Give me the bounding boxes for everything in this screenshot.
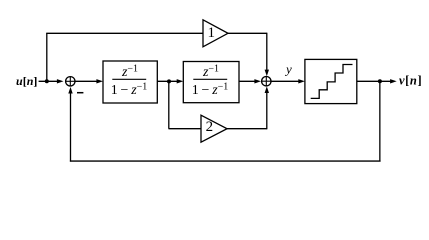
- node B (between integrators): [167, 79, 171, 83]
- wire gain1 to corner: [228, 32, 267, 34]
- wire u[n] to summer S1: [39, 80, 60, 82]
- minus sign at S1: [77, 92, 83, 94]
- wire summer S1 to integrator H1: [75, 80, 98, 82]
- wire quantizer to v[n]: [357, 80, 393, 82]
- wire H2 to summer S2: [239, 80, 256, 82]
- arrowhead into H2: [177, 79, 184, 83]
- integrator block H2: [183, 62, 239, 103]
- summer S1: [66, 77, 75, 86]
- wire summer S2 to quantizer: [271, 80, 300, 82]
- wire node C down (feedback): [379, 81, 381, 161]
- wire feedback bottom: [70, 160, 381, 162]
- arrowhead into summer S2 from bottom: [265, 86, 269, 93]
- integrator block H1: [103, 61, 157, 103]
- arrowhead into H1: [96, 79, 103, 83]
- svg-text:v[n]: v[n]: [399, 74, 422, 88]
- wire top feedforward to gain 1: [46, 32, 203, 34]
- wire feedback up to summer S1: [70, 93, 72, 162]
- gain amp b1 (triangle 1): [203, 20, 228, 47]
- quantizer Q: [305, 59, 357, 103]
- arrowhead into summer S1: [57, 79, 64, 83]
- arrowhead into summer S2 from left: [254, 79, 261, 83]
- wire node A up: [46, 33, 48, 81]
- svg-text:2: 2: [206, 119, 214, 135]
- wire to gain 2: [169, 128, 202, 130]
- arrowhead into summer S1 from bottom: [68, 87, 72, 94]
- arrowhead to v[n]: [390, 79, 397, 83]
- svg-text:u[n]: u[n]: [16, 74, 37, 88]
- gain amp b2 (triangle 2): [201, 115, 227, 142]
- value label H2 fraction: [192, 64, 229, 99]
- wire node B down: [168, 81, 170, 128]
- arrowhead into quantizer: [298, 79, 305, 83]
- arrowhead into summer S2 from top: [265, 70, 269, 77]
- node C (output branch dot): [378, 79, 382, 83]
- svg-text:1: 1: [208, 25, 216, 41]
- wire corner down to summer S2 top: [266, 33, 268, 71]
- wire H1 to H2: [157, 80, 178, 82]
- value label H1 fraction: [111, 64, 148, 99]
- node A (input branch dot): [45, 79, 49, 83]
- quantizer staircase: [311, 65, 353, 99]
- wire gain2 to corner: [227, 128, 267, 130]
- wire corner up to summer S2 bottom: [266, 92, 268, 129]
- summer S2: [262, 77, 271, 86]
- svg-text:y: y: [284, 62, 292, 77]
